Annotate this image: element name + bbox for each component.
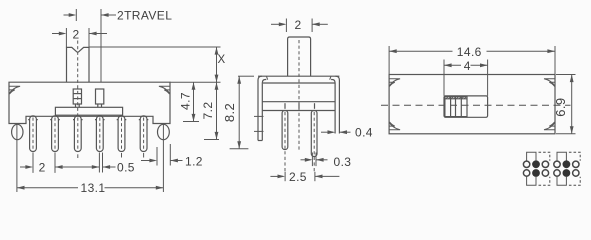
svg-text:2.5: 2.5: [289, 170, 307, 184]
corner detail BR: [544, 122, 555, 130]
knob-top extension line: [89, 46, 221, 48]
dimension 1.2 (lug width): [141, 144, 203, 168]
svg-text:2TRAVEL: 2TRAVEL: [117, 8, 172, 22]
dimension 2.5 (leg pitch): [270, 170, 339, 184]
body corner detail left: [10, 86, 21, 94]
dimension 4: [444, 59, 488, 96]
group2 bottom bracket dashed: [569, 177, 580, 185]
dimension 2 (knob width): [52, 27, 107, 47]
pin 6: [139, 116, 149, 158]
horizontal centerline: [381, 104, 571, 106]
slot opening: [444, 96, 488, 117]
svg-text:4: 4: [464, 59, 471, 73]
pads row2 group2: [554, 169, 579, 177]
knob centerline: [77, 41, 79, 116]
dimension 14.6: [389, 45, 555, 75]
pads row2 group1: [523, 169, 548, 177]
dimension 2 (stem): [271, 18, 328, 32]
svg-text:8.2: 8.2: [222, 103, 237, 122]
slider knob hatched: [445, 97, 467, 117]
internal slider bar: [55, 107, 122, 115]
svg-text:6.9: 6.9: [553, 97, 568, 116]
pin 4: [95, 116, 105, 173]
svg-text:0.3: 0.3: [334, 155, 352, 169]
group1 top bracket solid: [527, 152, 536, 161]
svg-text:X: X: [218, 54, 226, 66]
dimension 6.9: [553, 75, 576, 134]
pin 5: [117, 116, 127, 158]
group2 top bracket solid: [557, 152, 566, 161]
svg-text:0.5: 0.5: [117, 161, 135, 175]
corner detail BL: [390, 122, 401, 130]
group2 bottom bracket solid: [557, 177, 566, 185]
dimension 0.3 (leg thickness): [301, 155, 352, 169]
dimension 2 (pin pitch): [20, 161, 99, 175]
body outline: [9, 82, 170, 123]
dimension X: [215, 47, 226, 82]
body outline side: [258, 76, 339, 110]
side wall right (curled lug plate): [330, 76, 340, 133]
svg-text:2: 2: [73, 27, 80, 41]
body corner detail right: [159, 86, 170, 94]
dimension 13.1: [17, 181, 164, 195]
svg-text:7.2: 7.2: [201, 102, 215, 120]
contact block B2: [96, 89, 104, 107]
pads row1 group1: [523, 160, 548, 168]
dimension 0.5 (pin width): [103, 161, 135, 175]
dimension 0.4 (lug thickness): [321, 125, 373, 139]
base band ticks: [285, 103, 315, 109]
pads row1 group2: [554, 160, 579, 168]
dimension 2TRAVEL: [64, 8, 173, 82]
svg-text:4.7: 4.7: [179, 92, 193, 110]
side wall left (curled lug plate): [254, 76, 268, 140]
dimension 8.2: [222, 76, 254, 149]
svg-text:1.2: 1.2: [185, 154, 203, 168]
side lug left: [12, 124, 23, 192]
dimension 7.2: [201, 82, 219, 139]
corner detail TL: [390, 79, 401, 87]
svg-text:2: 2: [295, 18, 302, 32]
svg-text:14.6: 14.6: [457, 45, 482, 59]
dimension 4.7: [179, 82, 200, 121]
pin 2: [50, 116, 60, 173]
contact block B1: [73, 89, 81, 107]
group1 top bracket dashed: [539, 152, 550, 161]
knob stem: [67, 47, 90, 82]
group1 bottom bracket solid: [527, 177, 536, 185]
knob centerline: [298, 40, 300, 150]
group1 bottom bracket dashed: [539, 177, 550, 185]
body-top extension line: [170, 81, 221, 83]
svg-text:0.4: 0.4: [355, 125, 373, 139]
pin 1: [28, 116, 38, 173]
group2 top bracket dashed: [569, 152, 580, 161]
side lug right: [158, 124, 170, 192]
svg-text:13.1: 13.1: [81, 181, 106, 195]
svg-text:2: 2: [39, 161, 46, 175]
leg 1: [282, 111, 288, 173]
pin 3: [73, 116, 83, 158]
body outline top: [389, 75, 555, 134]
leg 2: [311, 111, 317, 173]
knob stem side: [288, 37, 311, 76]
corner detail TR: [544, 79, 555, 87]
